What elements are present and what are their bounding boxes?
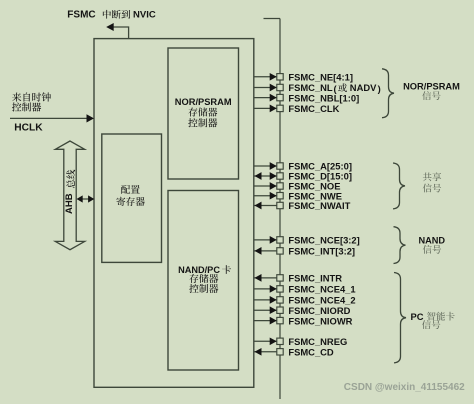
- out arrowhead FSMC_NIORD: [270, 306, 277, 314]
- out arrowhead FSMC_NWE: [270, 192, 277, 200]
- wire FSMC_NCE: [254, 239, 277, 241]
- svg-text:FSMC_INT[3:2]: FSMC_INT[3:2]: [288, 246, 355, 257]
- svg-text:FSMC_NIORD: FSMC_NIORD: [288, 305, 350, 316]
- outer FSMC block box: [94, 39, 254, 388]
- out arrowhead FSMC_NIOWR: [270, 317, 277, 325]
- pin square FSMC_INTR: [277, 275, 283, 281]
- svg-text:FSMC_NIOWR: FSMC_NIOWR: [288, 315, 352, 326]
- svg-text:CSDN @weixin_41155462: CSDN @weixin_41155462: [344, 382, 465, 393]
- wire FSMC_INTR: [254, 277, 277, 279]
- pin square FSMC_NWE: [277, 193, 283, 199]
- wire FSMC_INT: [254, 250, 277, 252]
- AHB bus hollow double-headed arrow: [55, 141, 84, 250]
- pin square FSMC_NBL: [277, 94, 283, 100]
- NOR/PSRAM controller box: [168, 48, 239, 179]
- label config registers: [121, 185, 130, 194]
- svg-text:FSMC_CLK: FSMC_CLK: [288, 103, 339, 114]
- pin square FSMC_NIORD: [277, 307, 283, 313]
- AHB-to-FSMC right arrowhead: [88, 195, 94, 202]
- brace NAND signals: [394, 227, 406, 264]
- HCLK wire: [10, 117, 88, 119]
- wire FSMC_NWAIT: [254, 205, 277, 207]
- wire FSMC_D: [254, 175, 277, 177]
- wire FSMC_NWE: [254, 195, 277, 197]
- pin bus top hook wire: [264, 18, 281, 20]
- pin square FSMC_INT: [277, 248, 283, 254]
- HCLK arrowhead: [87, 114, 95, 122]
- out arrowhead FSMC_NCE4_2: [270, 296, 277, 304]
- pin square FSMC_NIOWR: [277, 317, 283, 323]
- out arrowhead FSMC_NCE4_1: [270, 285, 277, 293]
- out arrowhead FSMC_NE: [270, 73, 277, 81]
- pin square FSMC_NCE4_2: [277, 297, 283, 303]
- interrupt wire to NVIC: [113, 27, 129, 39]
- in arrowhead FSMC_INT: [255, 247, 262, 255]
- wire FSMC_NCE4_2: [254, 299, 277, 301]
- svg-text:NVIC: NVIC: [133, 10, 156, 21]
- wire FSMC_CLK: [254, 107, 277, 109]
- in arrowhead FSMC_CD: [255, 348, 262, 356]
- out arrowhead FSMC_NOE: [270, 182, 277, 190]
- label clock source line1: [12, 92, 21, 101]
- wire FSMC_NCE4_1: [254, 288, 277, 290]
- svg-text:FSMC_NBL[1:0]: FSMC_NBL[1:0]: [288, 92, 359, 103]
- out arrowhead FSMC_NBL: [270, 94, 277, 102]
- label shared signals: [423, 173, 432, 182]
- NAND/PC-card controller box: [168, 191, 239, 371]
- pin square FSMC_D: [277, 173, 283, 179]
- brace NOR/PSRAM signals: [382, 69, 394, 118]
- wire FSMC_A: [254, 165, 277, 167]
- svg-text:FSMC_CD: FSMC_CD: [288, 347, 334, 358]
- brace PC-card signals: [394, 273, 406, 363]
- svg-text:FSMC_INTR: FSMC_INTR: [288, 273, 342, 284]
- svg-text:NOR/PSRAM: NOR/PSRAM: [175, 97, 232, 107]
- svg-text:FSMC: FSMC: [67, 10, 95, 21]
- wire FSMC_NL: [254, 87, 277, 89]
- wire FSMC_NIORD: [254, 309, 277, 311]
- pin square FSMC_NWAIT: [277, 202, 283, 208]
- svg-text:AHB: AHB: [64, 193, 75, 214]
- config registers box: [102, 134, 162, 262]
- svg-text:FSMC_NCE[3:2]: FSMC_NCE[3:2]: [288, 235, 359, 246]
- wire FSMC_NBL: [254, 97, 277, 99]
- pin square FSMC_NCE4_1: [277, 286, 283, 292]
- pin bus vertical wire: [279, 19, 281, 400]
- pin square FSMC_CLK: [277, 105, 283, 111]
- wire FSMC_NREG: [254, 340, 277, 342]
- pin square FSMC_NE: [277, 74, 283, 80]
- out arrowhead FSMC_NCE: [270, 236, 277, 244]
- AHB-to-FSMC double arrow wire: [79, 198, 91, 200]
- out arrowhead FSMC_A: [270, 162, 277, 170]
- svg-text:): ): [378, 83, 381, 94]
- wire FSMC_NIOWR: [254, 320, 277, 322]
- in arrowhead FSMC_NWAIT: [255, 202, 262, 210]
- in arrowhead FSMC_INTR: [255, 274, 262, 282]
- pin square FSMC_NREG: [277, 338, 283, 344]
- pin square FSMC_A: [277, 163, 283, 169]
- out arrowhead FSMC_D: [270, 172, 277, 180]
- brace shared signals: [393, 163, 405, 209]
- svg-text:NAND: NAND: [419, 236, 446, 246]
- svg-text:FSMC_NWAIT: FSMC_NWAIT: [288, 200, 350, 211]
- svg-text:FSMC_NREG: FSMC_NREG: [288, 336, 347, 347]
- pin square FSMC_CD: [277, 349, 283, 355]
- svg-text:FSMC_NE[4:1]: FSMC_NE[4:1]: [288, 72, 353, 83]
- in arrowhead FSMC_D: [255, 172, 262, 180]
- svg-text:FSMC_NCE4_1: FSMC_NCE4_1: [288, 284, 355, 295]
- pin square FSMC_NOE: [277, 183, 283, 189]
- out arrowhead FSMC_NREG: [270, 337, 277, 345]
- pin square FSMC_NL: [277, 84, 283, 90]
- pin square FSMC_NCE: [277, 237, 283, 243]
- svg-text:HCLK: HCLK: [14, 123, 43, 134]
- interrupt arrowhead: [106, 23, 114, 31]
- svg-text:PC: PC: [411, 311, 424, 322]
- svg-text:NAND/PC: NAND/PC: [178, 265, 220, 275]
- wire FSMC_NE: [254, 76, 277, 78]
- out arrowhead FSMC_NL: [270, 84, 277, 92]
- label clock source line2: [12, 102, 21, 111]
- AHB-to-FSMC left arrowhead: [77, 195, 83, 202]
- svg-text:NOR/PSRAM: NOR/PSRAM: [403, 82, 460, 92]
- wire FSMC_CD: [254, 351, 277, 353]
- out arrowhead FSMC_CLK: [270, 105, 277, 113]
- wire FSMC_NOE: [254, 185, 277, 187]
- label AHB bus (rotated): [64, 170, 75, 214]
